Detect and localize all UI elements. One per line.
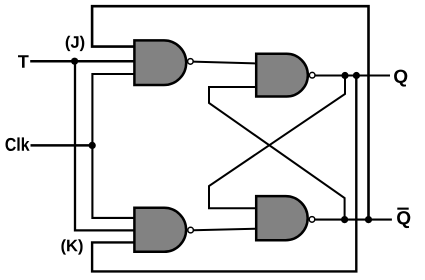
wire: Q output line [315, 74, 390, 76]
overline of Q-bar [397, 208, 408, 210]
wire: T vertical down to lower NAND middle input [75, 61, 134, 230]
bubble U3 [309, 72, 315, 78]
wire: cross-coupling Q to U4 upper input [209, 76, 345, 209]
wire: Clk up to top NAND third input [92, 74, 134, 145]
bubble U2 [188, 227, 194, 233]
label T [18, 55, 29, 67]
wire: Q feedback from K-gate pin3 along bottom up to Q node [92, 76, 356, 272]
wire: Clk down to lower NAND top input [92, 145, 134, 218]
label Q-bar [397, 211, 410, 228]
node junction on Clk line [89, 142, 96, 149]
node junction Q line to bottom feedback [353, 72, 360, 79]
nand gate U2 (K input gate, bottom-left) [134, 208, 186, 252]
label (J) [66, 36, 85, 51]
bubble U1 [188, 59, 194, 65]
wire: U1 output to U3 input [192, 62, 256, 64]
wire: T input stub [30, 60, 134, 63]
node junction Q line to cross-coupling [341, 72, 348, 79]
label Q [394, 70, 407, 87]
wire: cross-coupling Q-bar to U3 lower input [209, 87, 345, 220]
wire: U2 output to U4 input [194, 229, 257, 231]
node junction Q-bar line to top feedback [365, 216, 372, 223]
nand gate U3 (Q latch gate, top-right) [256, 54, 308, 97]
label Clk [6, 137, 30, 151]
wire: Q-bar feedback top line and right vertical to Q-bar node [92, 6, 368, 219]
nand gate U1 (J input gate, top-left) [134, 40, 186, 85]
wire: Clk input stub [31, 144, 93, 147]
node junction on T line [71, 58, 78, 65]
node junction Q-bar line to cross-coupling [341, 216, 348, 223]
bubble U4 [309, 217, 315, 223]
wire: Q-bar output line [315, 219, 392, 221]
nand gate U4 (Q-bar latch gate, bottom-right) [256, 196, 307, 240]
label (K) [61, 239, 82, 254]
